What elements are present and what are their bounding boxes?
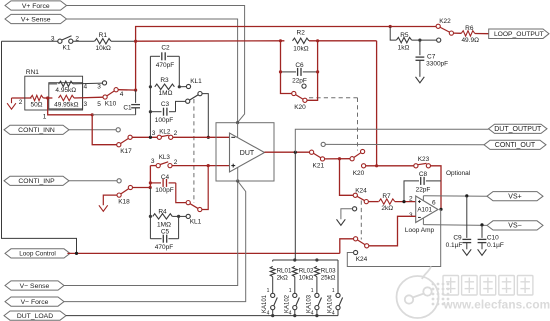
- wire VS+ rail: [423, 195, 487, 198]
- svg-text:KL1: KL1: [190, 78, 202, 85]
- wire network left rail: [149, 56, 151, 137]
- op-amp DUT triangle: [230, 133, 265, 172]
- svg-text:470pF: 470pF: [156, 62, 174, 69]
- svg-text:K17: K17: [120, 148, 132, 155]
- switch KA101: [271, 293, 275, 297]
- ground at C7: [416, 77, 425, 83]
- wire DUT output down to load resistors: [294, 152, 296, 260]
- svg-text:V− Force: V− Force: [21, 299, 49, 306]
- svg-text:1: 1: [332, 288, 335, 294]
- capacitor C1: [135, 90, 137, 103]
- resistor RL01 2kohm: [272, 260, 274, 262]
- svg-text:2: 2: [409, 196, 413, 203]
- relay linkage dashed KL: [193, 99, 195, 203]
- resistor RN1 49.95k: [59, 95, 75, 100]
- svg-text:C4: C4: [161, 174, 170, 181]
- switch KA102: [293, 293, 297, 297]
- svg-text:R4: R4: [158, 208, 167, 215]
- svg-text:3300pF: 3300pF: [426, 61, 448, 68]
- svg-text:2kΩ: 2kΩ: [381, 205, 393, 212]
- svg-text:10kΩ: 10kΩ: [96, 45, 111, 52]
- svg-text:DUT_LOAD: DUT_LOAD: [17, 313, 53, 320]
- svg-text:Optional: Optional: [446, 170, 471, 177]
- svg-text:Loop Amp: Loop Amp: [405, 227, 435, 234]
- svg-text:A101: A101: [417, 206, 432, 213]
- svg-text:K18: K18: [118, 199, 130, 206]
- switch K23: [414, 164, 418, 168]
- node VS- tag: [487, 221, 543, 230]
- svg-text:R1: R1: [99, 32, 108, 39]
- capacitor C5 470pF: [178, 216, 180, 238]
- switch KL1 pole2 for C3: [176, 101, 186, 111]
- wire DUT_LOAD rail: [66, 315, 338, 317]
- wire V- Sense to DUT V- pin: [64, 181, 238, 285]
- relay linkage dashed K24: [360, 201, 362, 240]
- switch K10: [102, 81, 106, 85]
- resistor network RN1 box: [25, 76, 83, 110]
- switch K18: [117, 193, 121, 197]
- svg-text:VS+: VS+: [508, 194, 521, 201]
- ground at K18: [103, 195, 117, 205]
- switch K24 pole2: [340, 239, 353, 254]
- switch KA104: [336, 293, 340, 297]
- svg-text:50Ω: 50Ω: [30, 101, 42, 108]
- ground at RN1 input: [11, 98, 13, 103]
- ground at K24: [341, 209, 353, 220]
- node CONTI_INN tag: [4, 125, 69, 134]
- svg-text:100pF: 100pF: [155, 187, 173, 194]
- wire to DUT + input: [172, 165, 229, 167]
- node Loop Control tag: [5, 249, 70, 258]
- svg-text:R3: R3: [160, 77, 169, 84]
- resistor R4 1M: [153, 214, 173, 219]
- svg-text:V− Sense: V− Sense: [20, 283, 50, 290]
- svg-text:4: 4: [267, 311, 270, 317]
- wire red rail down to K20 pole2: [376, 41, 378, 166]
- svg-text:4: 4: [83, 84, 87, 91]
- svg-text:C1: C1: [123, 104, 132, 111]
- watermark chinese text: [443, 276, 459, 296]
- svg-text:4: 4: [289, 311, 292, 317]
- capacitor C4 100pF: [150, 182, 161, 184]
- svg-text:K10: K10: [105, 101, 117, 108]
- svg-text:C7: C7: [427, 54, 436, 61]
- svg-text:RL01: RL01: [277, 267, 292, 274]
- svg-text:CONTI_INN: CONTI_INN: [18, 127, 55, 134]
- wire V+ Sense to DUT V+ pin: [67, 19, 238, 122]
- switch K17: [117, 143, 121, 147]
- svg-text:K22: K22: [439, 18, 451, 25]
- resistor R7 2k: [368, 201, 378, 203]
- wire top red rail to K22: [136, 27, 437, 91]
- pin 1 of RN1: [48, 98, 92, 115]
- capacitor C6 22pF: [281, 71, 297, 73]
- svg-text:V+ Force: V+ Force: [22, 3, 50, 10]
- node V+ Force tag: [5, 1, 67, 10]
- A101 V+ stub: [422, 196, 424, 201]
- resistor RN1 4.95k: [49, 83, 57, 85]
- wire network right rail: [178, 56, 180, 87]
- svg-text:6: 6: [432, 200, 436, 207]
- ground at C9: [462, 249, 471, 255]
- wire Loop Control line: [67, 252, 339, 254]
- switch KL3 pole2 for C4: [176, 183, 186, 203]
- svg-text:CONTI_INP: CONTI_INP: [18, 178, 55, 185]
- DUT V- pin stub: [236, 179, 239, 182]
- svg-text:3: 3: [151, 158, 155, 165]
- svg-text:VS−: VS−: [508, 223, 521, 230]
- wire to K17: [92, 115, 116, 145]
- switch KA103: [315, 293, 319, 297]
- svg-text:RL02: RL02: [299, 267, 314, 274]
- node CONTI_OUT tag: [484, 140, 546, 149]
- switch KL2: [157, 135, 161, 139]
- wire KA104 branch: [337, 260, 339, 293]
- switch K20 pole1: [292, 91, 296, 95]
- svg-text:DUT_OUTPUT: DUT_OUTPUT: [494, 126, 542, 133]
- svg-text:K24: K24: [355, 188, 367, 195]
- wire DUT output: [265, 151, 310, 153]
- svg-text:K23: K23: [418, 156, 430, 163]
- svg-text:R7: R7: [382, 193, 391, 200]
- wire main red rail R1-R2: [136, 40, 285, 42]
- contact KL1 lower: [179, 215, 186, 217]
- svg-text:22pF: 22pF: [416, 186, 431, 193]
- svg-text:LOOP_OUTPUT: LOOP_OUTPUT: [494, 31, 544, 38]
- svg-text:KL1: KL1: [190, 219, 202, 226]
- svg-text:1: 1: [311, 288, 314, 294]
- svg-text:49.95kΩ: 49.95kΩ: [54, 101, 79, 108]
- svg-text:4: 4: [311, 311, 314, 317]
- resistor R6 49.9ohm: [454, 32, 462, 34]
- watermark logo: [397, 267, 439, 319]
- svg-text:K21: K21: [313, 162, 325, 169]
- svg-text:4.95kΩ: 4.95kΩ: [55, 87, 76, 94]
- svg-text:Loop Control: Loop Control: [19, 251, 56, 258]
- svg-text:0.1µF: 0.1µF: [446, 242, 463, 249]
- svg-text:2: 2: [174, 159, 178, 166]
- svg-text:4: 4: [332, 311, 335, 317]
- capacitor C8 22pF: [404, 181, 419, 202]
- wire to DUT - input: [173, 136, 230, 138]
- wire ladder top rail: [273, 259, 338, 261]
- node DUT_LOAD tag: [4, 311, 66, 320]
- svg-text:RL03: RL03: [321, 267, 336, 274]
- svg-text:R5: R5: [400, 32, 409, 39]
- node DUT_OUTPUT tag: [489, 124, 548, 133]
- switch K20 pole2: [350, 157, 354, 161]
- svg-text:V+ Sense: V+ Sense: [21, 16, 51, 23]
- watermark dots: [432, 283, 435, 286]
- node V- Force tag: [5, 297, 64, 306]
- node CONTI_INP tag: [4, 176, 69, 185]
- svg-text:C10: C10: [487, 234, 499, 241]
- svg-text:2: 2: [19, 99, 23, 106]
- svg-text:C2: C2: [161, 45, 170, 52]
- wire K23 to A101 output: [431, 166, 442, 210]
- svg-text:3: 3: [51, 36, 55, 43]
- resistor RL02 10kohm: [294, 260, 296, 262]
- capacitor C10 0.1uF: [481, 225, 483, 238]
- svg-text:1MΩ: 1MΩ: [159, 90, 173, 97]
- svg-text:3: 3: [97, 84, 101, 91]
- svg-text:K20: K20: [294, 104, 306, 111]
- switch K21: [310, 150, 314, 154]
- wire A101 output feedback loop: [347, 209, 440, 266]
- svg-text:3: 3: [83, 101, 87, 108]
- wire down to K24: [340, 159, 354, 196]
- switch K1: [2, 40, 58, 42]
- svg-text:0.1µF: 0.1µF: [487, 242, 504, 249]
- wire R2 bypass right: [307, 41, 318, 101]
- svg-text:K20: K20: [353, 170, 365, 177]
- wire CONTI_INP stub: [69, 180, 117, 182]
- svg-text:www.elecfans.com: www.elecfans.com: [443, 298, 550, 312]
- node V+ Sense tag: [5, 14, 67, 23]
- svg-text:2kΩ: 2kΩ: [277, 274, 289, 281]
- svg-text:1: 1: [289, 288, 292, 294]
- wire + input left rail: [149, 166, 151, 188]
- relay linkage dashed K20: [309, 97, 358, 99]
- A101 V- stub: [422, 218, 424, 224]
- svg-text:25kΩ: 25kΩ: [321, 274, 336, 281]
- svg-text:1: 1: [43, 114, 47, 121]
- wire left rail K1 to Loop Control: [2, 41, 77, 253]
- switch K22: [389, 25, 392, 28]
- wire DUT output up to DUT_OUTPUT: [295, 129, 488, 152]
- svg-text:1: 1: [267, 288, 270, 294]
- resistor RN1 50ohm: [30, 95, 43, 100]
- svg-text:C5: C5: [161, 229, 170, 236]
- svg-text:10kΩ: 10kΩ: [293, 45, 308, 52]
- svg-text:C3: C3: [161, 101, 170, 108]
- wire V- Force to DUT V- pin: [64, 181, 246, 302]
- wire CONTI_INN stub: [69, 129, 116, 131]
- svg-text:2: 2: [174, 130, 178, 137]
- svg-text:KL2: KL2: [159, 129, 171, 136]
- svg-text:C8: C8: [419, 171, 428, 178]
- wire R2 bypass left: [281, 41, 292, 94]
- op-amp A101 triangle: [416, 196, 438, 223]
- svg-text:100pF: 100pF: [155, 117, 173, 124]
- svg-text:R6: R6: [465, 25, 474, 32]
- svg-text:5: 5: [97, 101, 101, 108]
- capacitor C7 3300pF: [419, 40, 421, 55]
- op-amp DUT box: [216, 123, 274, 181]
- wire K21 NO to CONTI_OUT: [325, 143, 484, 145]
- contact KL1 upper: [179, 86, 186, 88]
- svg-text:K1: K1: [63, 45, 71, 52]
- wire K21 to K20 pole2: [325, 158, 350, 160]
- switch K24 pole1: [353, 193, 357, 197]
- svg-text:22pF: 22pF: [292, 78, 307, 85]
- svg-text:3: 3: [409, 212, 413, 219]
- DUT V+ pin stub: [236, 121, 239, 124]
- resistor RL03 25kohm: [316, 260, 318, 262]
- ground at C10: [478, 249, 487, 255]
- wire lower network left rail: [149, 188, 151, 239]
- resistor R2 10k: [293, 38, 309, 43]
- svg-text:3: 3: [152, 130, 156, 137]
- resistor R1 10k: [95, 39, 111, 44]
- svg-text:1MΩ: 1MΩ: [157, 221, 171, 228]
- resistor R5 1k: [390, 27, 396, 41]
- wire RN1 input: [12, 97, 32, 99]
- svg-text:470pF: 470pF: [155, 244, 173, 251]
- capacitor C2 470pF: [150, 55, 160, 57]
- switch KL3: [150, 165, 156, 167]
- resistor R3 1M: [155, 84, 175, 89]
- node LOOP_OUTPUT tag: [489, 29, 549, 39]
- wire RN1 pin1 to C1: [92, 114, 135, 116]
- svg-text:49.9Ω: 49.9Ω: [461, 37, 479, 44]
- svg-text:4: 4: [120, 91, 124, 98]
- capacitor C3 100pF: [150, 111, 161, 113]
- svg-text:1kΩ: 1kΩ: [398, 45, 410, 52]
- svg-text:RN1: RN1: [26, 69, 39, 76]
- wire VS- rail: [423, 224, 487, 227]
- node V- Sense tag: [5, 281, 64, 290]
- svg-text:C6: C6: [295, 62, 304, 69]
- svg-text:R2: R2: [297, 29, 306, 36]
- capacitor C9 0.1uF: [466, 196, 468, 238]
- node VS+ tag: [487, 192, 543, 201]
- svg-text:10kΩ: 10kΩ: [299, 274, 314, 281]
- wire V+ Force to DUT V+ pin: [67, 6, 245, 123]
- svg-text:KL3: KL3: [159, 154, 171, 161]
- svg-text:C9: C9: [453, 234, 462, 241]
- svg-text:CONTI_OUT: CONTI_OUT: [495, 142, 536, 149]
- svg-text:K24: K24: [356, 256, 368, 263]
- wire A101 pin3: [369, 216, 416, 246]
- svg-text:DUT: DUT: [240, 150, 255, 157]
